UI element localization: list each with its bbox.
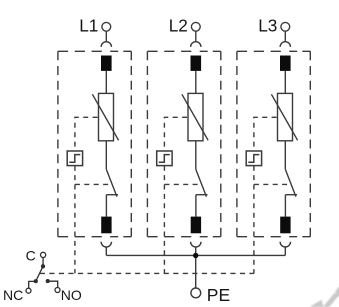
terminal L2: [191, 22, 200, 31]
thermal monitor link (dashed): [164, 117, 200, 273]
varistor RV1 diagonal: [92, 94, 118, 140]
svg-text:NO: NO: [61, 287, 82, 303]
svg-text:L2: L2: [169, 15, 188, 35]
terminal L1: [102, 22, 111, 31]
pivot junction: [42, 265, 45, 268]
thermal monitor link (dashed): [254, 117, 290, 273]
thermal disconnect switch lever: [285, 169, 296, 196]
svg-text:C: C: [26, 247, 36, 263]
svg-text:NC: NC: [3, 287, 23, 303]
mechanical link to signalling switch (dashed): [40, 272, 254, 274]
wire L1 terminal to plug socket: [105, 31, 107, 42]
wire terminal to varistor: [105, 71, 107, 94]
svg-text:L3: L3: [258, 15, 277, 35]
thermal monitor device (square with step): [67, 151, 82, 166]
varistor RV2 body: [188, 93, 203, 140]
PE bus wire: [106, 254, 285, 256]
varistor RV2 diagonal: [182, 94, 208, 140]
wire L2 terminal to plug socket: [195, 31, 197, 42]
thermal disconnect fixed contact bar: [196, 194, 208, 196]
wire varistor to disconnect switch: [105, 141, 107, 169]
terminal NO: [55, 288, 60, 293]
wire switch to bottom terminal: [105, 195, 107, 217]
module 1 enclosure (dashed box): [58, 51, 131, 236]
plug socket arc bottom: [191, 242, 201, 247]
terminal L3: [281, 22, 290, 31]
terminal NC: [26, 288, 31, 293]
terminal block bottom (black): [101, 217, 111, 234]
thermal disconnect fixed contact bar: [106, 194, 118, 196]
wire terminal to varistor: [195, 71, 197, 94]
thermal disconnect switch lever: [196, 169, 207, 196]
svg-text:PE: PE: [207, 285, 230, 305]
wire switch to bottom terminal: [195, 195, 197, 217]
plug socket arc top: [191, 42, 201, 47]
terminal block bottom (black): [191, 217, 201, 234]
wire switch to bottom terminal: [284, 195, 286, 217]
switch lever C-NC: [35, 266, 43, 282]
varistor RV3 body: [278, 93, 293, 140]
NC contact dot: [34, 280, 37, 283]
terminal block bottom (black): [280, 217, 290, 234]
wire C to pivot: [42, 258, 44, 267]
thermal monitor device (square with step): [246, 151, 261, 166]
module 3 enclosure (dashed box): [237, 51, 310, 236]
wire module 2 to PE terminal: [195, 247, 197, 288]
junction on PE bus: [193, 253, 198, 258]
watermark (grey logo fragment, bottom-right corner): [310, 286, 339, 307]
wire terminal to varistor: [284, 71, 286, 94]
thermal monitor device (square with step): [157, 151, 172, 166]
PE terminal: [191, 288, 201, 298]
varistor RV3 diagonal: [271, 94, 297, 140]
thermal monitor link (dashed): [75, 117, 111, 273]
remote signalling changeover switch: [3, 247, 82, 302]
terminal block top (black): [101, 56, 112, 71]
wire L3 terminal to plug socket: [284, 31, 286, 42]
module 2 enclosure (dashed box): [147, 51, 220, 236]
thermal disconnect fixed contact bar: [285, 194, 297, 196]
terminal C: [41, 252, 46, 257]
terminal block top (black): [280, 56, 291, 71]
wire module 3 to PE bus: [284, 247, 286, 255]
NO contact dot: [46, 280, 49, 283]
thermal disconnect switch lever: [106, 169, 117, 196]
NC contact arm: [29, 281, 36, 288]
NO contact arm: [48, 281, 58, 287]
plug socket arc bottom: [280, 242, 290, 247]
wire module 1 to PE bus: [105, 247, 107, 255]
wire varistor to disconnect switch: [284, 141, 286, 169]
wire varistor to disconnect switch: [195, 141, 197, 169]
plug socket arc top: [101, 42, 111, 47]
plug socket arc bottom: [101, 242, 111, 247]
svg-text:L1: L1: [79, 15, 98, 35]
varistor RV1 body: [99, 93, 114, 140]
terminal block top (black): [191, 56, 202, 71]
plug socket arc top: [280, 42, 290, 47]
